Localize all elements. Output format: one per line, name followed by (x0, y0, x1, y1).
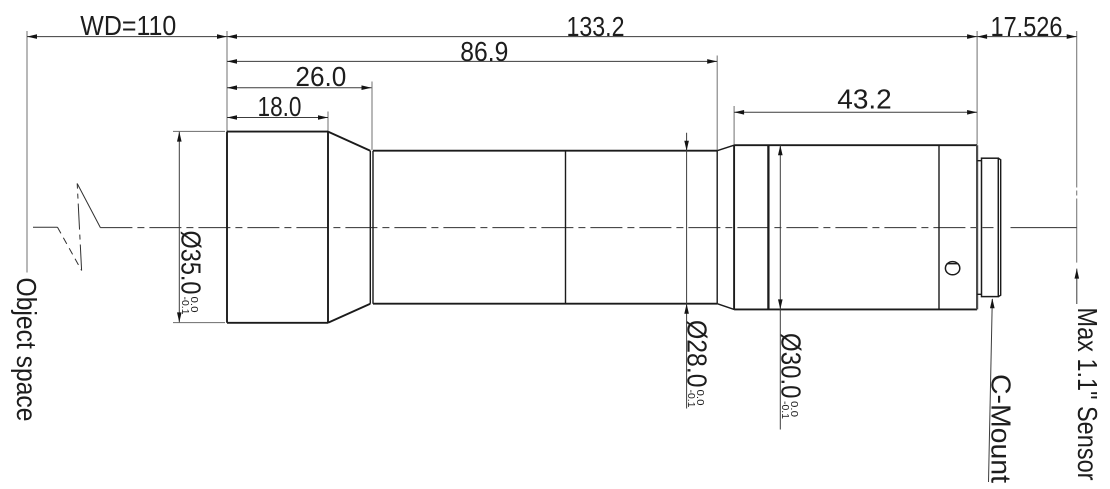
label C-Mount (985, 374, 1016, 483)
svg-text:-0.1: -0.1 (685, 390, 697, 408)
dimension d35 (173, 131, 225, 322)
svg-text:26.0: 26.0 (295, 61, 346, 92)
thread face edge (998, 158, 1000, 296)
svg-text:Object space: Object space (11, 278, 42, 422)
extension line lens front face (226, 31, 228, 132)
extension line object plane (26, 31, 28, 273)
svg-text:86.9: 86.9 (460, 36, 508, 67)
dimension d30 (778, 145, 783, 429)
extension line 26.0 right (371, 82, 373, 151)
taper cone (328, 132, 370, 323)
dimension 18.0 (227, 117, 328, 119)
svg-text:Ø28.0: Ø28.0 (681, 320, 712, 388)
extension line 43.2 left (733, 106, 735, 145)
extension line flange face (976, 31, 978, 145)
svg-text:43.2: 43.2 (837, 83, 892, 114)
svg-text:-0.1: -0.1 (179, 297, 191, 315)
focus ring edge (767, 145, 769, 309)
svg-text:-0.1: -0.1 (779, 401, 791, 419)
C-Mount leader (989, 298, 995, 482)
dimension 43.2 (734, 111, 977, 113)
C-mount thread ring (982, 158, 999, 296)
label d35.0 (175, 231, 206, 315)
image plane line (dashed) (1076, 31, 1078, 188)
break symbol zigzag (58, 227, 82, 270)
svg-text:Max 1.1" Sensor: Max 1.1" Sensor (1072, 308, 1103, 481)
extension line 18.0 right (327, 112, 329, 132)
junction chamfer (717, 145, 734, 309)
extension line 86.9 right (716, 56, 718, 151)
centerline optical axis (33, 226, 58, 228)
svg-text:C-Mount: C-Mount (985, 374, 1016, 483)
taper end edge pair (370, 151, 373, 304)
dimension 17.526 (977, 36, 1077, 38)
dimension d28 (684, 133, 689, 409)
dimension 133.2 (227, 36, 977, 38)
label Object space (11, 278, 42, 422)
set screw (945, 262, 959, 275)
dimension 86.9 (227, 60, 717, 62)
svg-text:WD=110: WD=110 (80, 10, 176, 41)
mid barrel joint (565, 151, 567, 304)
mid barrel (d28) (373, 151, 717, 304)
label d28.0 (681, 320, 712, 408)
rear barrel edge (938, 145, 940, 309)
dimension WD=110 (27, 36, 227, 38)
rear face (976, 145, 978, 309)
svg-text:133.2: 133.2 (567, 11, 625, 42)
Max sensor leader (1075, 269, 1080, 304)
label d30.0 (775, 333, 806, 419)
junction face d28/d30 (716, 151, 718, 304)
svg-text:Ø30.0: Ø30.0 (775, 333, 806, 399)
svg-text:17.526: 17.526 (991, 11, 1063, 42)
svg-text:Ø35.0: Ø35.0 (175, 231, 206, 295)
dimension 26.0 (227, 87, 372, 89)
svg-text:18.0: 18.0 (258, 91, 302, 122)
rear barrel (d30) (734, 145, 977, 309)
thread relief ticks (977, 161, 981, 295)
front barrel (d35) (227, 132, 328, 323)
label Max 1.1" Sensor (1072, 308, 1103, 481)
